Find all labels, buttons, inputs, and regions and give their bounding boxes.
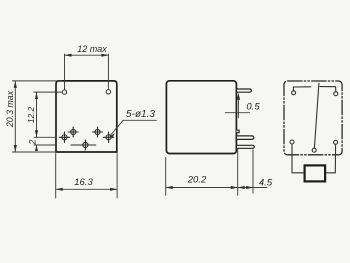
svg-text:20.3 max: 20.3 max	[5, 90, 15, 128]
svg-text:16.3: 16.3	[74, 177, 93, 188]
svg-text:20.2: 20.2	[187, 175, 207, 186]
svg-text:5-ø1.3: 5-ø1.3	[126, 109, 155, 120]
svg-text:0.5: 0.5	[246, 101, 260, 112]
svg-text:2: 2	[27, 139, 37, 145]
svg-text:12 max: 12 max	[77, 44, 107, 54]
svg-text:4.5: 4.5	[259, 178, 273, 189]
svg-text:12.2: 12.2	[26, 107, 36, 124]
